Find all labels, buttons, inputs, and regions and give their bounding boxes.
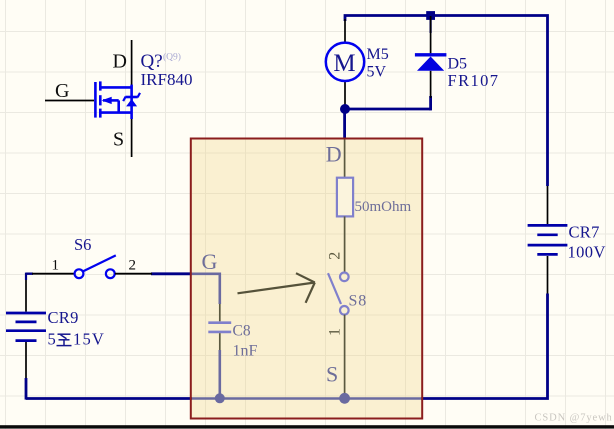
battery CR9	[6, 273, 105, 400]
battery CR7	[528, 186, 606, 294]
CR7 plates	[528, 225, 568, 254]
Q? body diode (zener-style)	[123, 93, 140, 107]
wire G net inside box (dimmed)	[192, 274, 220, 304]
wire CR9 to bottom rail	[25, 378, 28, 400]
svg-text:100V: 100V	[568, 243, 606, 262]
svg-text:FR107: FR107	[448, 71, 500, 90]
pin 2 of resistor down to S8	[344, 216, 346, 272]
D5 cathode bar	[415, 53, 447, 56]
wire G net into box	[151, 272, 192, 275]
svg-text:1nF: 1nF	[233, 343, 258, 360]
svg-text:S8: S8	[349, 293, 368, 310]
switch S8	[327, 252, 368, 399]
wire bottom rail left bright segment	[26, 397, 192, 400]
svg-text:M: M	[333, 50, 355, 77]
svg-text:1: 1	[327, 328, 344, 336]
D5 triangle	[417, 57, 444, 71]
svg-text:CR9: CR9	[48, 308, 79, 327]
pin + of CR9	[25, 280, 27, 312]
S6 left terminal circle	[75, 269, 84, 278]
svg-text:S: S	[326, 362, 338, 387]
svg-text:(Q9): (Q9)	[163, 52, 181, 63]
svg-text:1: 1	[52, 258, 60, 274]
highlight box fill (tan)	[191, 139, 422, 419]
wire drain vertical (black)	[131, 40, 133, 86]
pin 2 of S6	[115, 273, 152, 275]
MOSFET body Q?	[95, 81, 131, 119]
pin G of Q? (gate pin wire)	[45, 100, 94, 102]
M5 circle	[326, 43, 364, 81]
svg-text:CSDN @7yewh: CSDN @7yewh	[535, 413, 613, 424]
svg-text:CR7: CR7	[569, 223, 600, 242]
sheet bottom border	[0, 425, 614, 428]
svg-text:S: S	[113, 129, 124, 151]
wire S6 corner down	[25, 273, 27, 280]
wire D net inside box	[344, 139, 346, 178]
pin - of CR7	[547, 256, 549, 294]
highlight box border	[191, 139, 422, 419]
svg-text:D: D	[326, 142, 342, 167]
pin 1 of M5	[344, 19, 346, 43]
S8 top terminal circle	[340, 273, 349, 282]
wire M5 to D5 (horizontal)	[345, 108, 431, 111]
junction top rail / D5	[426, 11, 435, 20]
S6 right terminal circle	[106, 269, 115, 278]
svg-text:15V: 15V	[73, 330, 105, 349]
svg-text:5: 5	[48, 330, 56, 349]
svg-text:S6: S6	[74, 235, 91, 254]
junction S8 / bottom rail	[339, 393, 350, 404]
pin - of CR9	[25, 342, 27, 378]
Q? body-diode arrow	[102, 97, 112, 104]
svg-text:Q?: Q?	[141, 51, 163, 72]
pin cathode of D5	[430, 16, 432, 53]
C8 plates	[208, 321, 231, 324]
svg-text:C8: C8	[233, 323, 251, 340]
pin + of CR7	[547, 186, 549, 224]
wire battery CR9 to S6	[26, 273, 33, 275]
wire C8 to bottom rail	[219, 350, 222, 398]
S8 blade	[328, 273, 341, 304]
svg-text:D: D	[113, 51, 127, 73]
annotation arrow pointing at S8	[238, 273, 315, 303]
wire source vertical (black)	[131, 117, 133, 157]
motor M5	[326, 19, 389, 106]
diode D5 (FR107)	[415, 16, 500, 98]
pin 1 of C8	[219, 304, 221, 321]
capacitor C8	[208, 304, 257, 360]
pin anode of D5	[430, 71, 432, 98]
wire right side vertical (CR7 minus to bottom rail)	[421, 294, 548, 399]
wire bottom rail (dimmed inside box)	[191, 397, 422, 400]
wire top rail (M5/D5/CR7 net)	[345, 16, 548, 187]
pin 2 of M5	[344, 81, 346, 106]
pin 1 of S8 down to S node	[344, 315, 346, 399]
svg-text:IRF840: IRF840	[141, 70, 193, 89]
pin 1 of S6	[32, 273, 74, 275]
S6 blade	[83, 255, 116, 271]
svg-text:2: 2	[129, 258, 137, 274]
resistor 50mOhm	[337, 178, 412, 273]
svg-text:2: 2	[327, 252, 344, 260]
svg-text:5V: 5V	[367, 64, 387, 81]
CR9 comment glyph 至 (drawn)	[57, 334, 72, 345]
transistor Q? (IRF840 MOSFET symbol, top-left)	[45, 40, 192, 157]
svg-text:D5: D5	[448, 56, 468, 73]
svg-text:G: G	[202, 249, 218, 274]
switch S6	[26, 235, 152, 278]
wire D5 bottom stub	[429, 96, 432, 110]
svg-text:50mOhm: 50mOhm	[355, 199, 412, 215]
svg-text:G: G	[55, 80, 69, 102]
pin 2 of C8	[219, 333, 221, 350]
50mOhm rect	[337, 178, 353, 217]
junction C8 / bottom rail	[215, 393, 225, 403]
grid inside highlight box	[190, 138, 423, 419]
junction M5 / bottom wire	[340, 104, 350, 114]
wire from D junction down into box	[343, 109, 346, 139]
CR9 plates	[6, 313, 46, 341]
wire D5 top stub	[430, 16, 432, 34]
svg-text:M5: M5	[367, 46, 389, 63]
S8 bottom terminal circle	[340, 306, 349, 315]
